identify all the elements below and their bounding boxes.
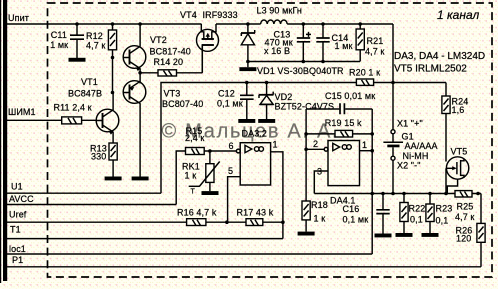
resistor R23 xyxy=(426,194,452,234)
svg-text:4,7 к: 4,7 к xyxy=(455,212,474,222)
svg-text:x 16 В: x 16 В xyxy=(264,46,290,56)
svg-text:DA3, DA4 - LM324D: DA3, DA4 - LM324D xyxy=(394,51,485,62)
svg-text:4,7 к: 4,7 к xyxy=(365,47,384,57)
zener diode VD2 xyxy=(259,83,334,120)
transistor VT1 xyxy=(68,77,119,143)
svg-text:R19 15 k: R19 15 k xyxy=(325,118,362,128)
pin 1 output of DA4.1 xyxy=(360,140,373,151)
wire Uref line xyxy=(7,221,283,223)
wire feedback vertical left xyxy=(305,109,307,201)
node R12-rail xyxy=(111,22,115,26)
resistor R11 xyxy=(54,103,92,124)
svg-text:R20 1 к: R20 1 к xyxy=(349,68,380,78)
svg-text:VT3: VT3 xyxy=(164,89,181,99)
node R14 tap xyxy=(138,71,142,75)
svg-text:ШИМ1: ШИМ1 xyxy=(8,107,36,117)
svg-text:2,4 к: 2,4 к xyxy=(185,133,204,143)
svg-text:R18: R18 xyxy=(311,200,328,210)
wire rail L3 to output corner xyxy=(287,24,393,130)
node C11-rail xyxy=(75,22,79,26)
svg-text:BZT52-C4V7S: BZT52-C4V7S xyxy=(275,102,335,112)
svg-text:R11 2,4 к: R11 2,4 к xyxy=(54,103,92,113)
pin 6 of DA3.2 xyxy=(229,141,241,153)
resistor R21 xyxy=(356,24,384,62)
wire Uпит rail xyxy=(7,23,202,25)
resistor R15 xyxy=(185,126,237,155)
resistor R14 xyxy=(140,46,202,76)
svg-text:120: 120 xyxy=(456,234,471,244)
wire P1 line xyxy=(7,266,481,268)
wire VT5 gate down xyxy=(445,168,447,193)
diode VD1 (Schottky) xyxy=(241,24,344,76)
wire AVCC riser to R15 xyxy=(176,151,185,205)
ground of R18 xyxy=(298,232,315,236)
svg-text:R21: R21 xyxy=(367,36,384,46)
ground of VD1 xyxy=(239,62,256,72)
svg-text:X1 "+": X1 "+" xyxy=(397,119,423,129)
svg-text:R22: R22 xyxy=(409,204,426,214)
svg-text:2: 2 xyxy=(313,139,318,149)
svg-text:T1: T1 xyxy=(10,225,21,235)
pin 5 of DA3.2 xyxy=(228,166,241,222)
wire shunt line xyxy=(314,193,455,195)
wire U1 riser and top line xyxy=(161,83,446,194)
svg-text:Uref: Uref xyxy=(9,210,27,220)
svg-text:C12: C12 xyxy=(218,89,235,99)
connector X2 xyxy=(391,156,421,170)
resistor R26 xyxy=(456,223,486,266)
resistor R25 xyxy=(455,191,474,222)
svg-text:T: T xyxy=(191,189,196,196)
svg-text:P1: P1 xyxy=(12,255,23,265)
node pin5-Uref xyxy=(225,220,229,224)
node DA4.1 out xyxy=(370,149,374,153)
svg-text:BC807-40: BC807-40 xyxy=(162,99,203,109)
svg-text:U1: U1 xyxy=(11,182,23,192)
capacitor C14 xyxy=(316,24,352,62)
ground of RK1 xyxy=(202,191,219,195)
resistor R16 xyxy=(177,208,217,226)
svg-text:1 канал: 1 канал xyxy=(437,8,479,22)
node VT5 source xyxy=(444,192,448,196)
svg-text:0,1: 0,1 xyxy=(410,215,423,225)
wire feedback vertical right / loc1 riser xyxy=(371,109,373,254)
svg-text:AVCC: AVCC xyxy=(9,194,34,204)
node C14-gnd xyxy=(321,60,325,64)
wire ШИМ1 xyxy=(7,119,97,121)
svg-text:G1: G1 xyxy=(402,132,414,142)
node pin2-R18 xyxy=(304,148,308,152)
svg-text:VT2: VT2 xyxy=(150,35,167,45)
svg-text:VT1: VT1 xyxy=(81,77,98,87)
svg-text:VD2: VD2 xyxy=(275,92,293,102)
svg-text:VT5: VT5 xyxy=(451,147,468,157)
wire R24 drop xyxy=(445,83,447,97)
ground of R23 xyxy=(422,233,439,237)
op-amp DA3.2 xyxy=(240,129,270,186)
svg-text:5: 5 xyxy=(228,166,233,176)
ground of VD2 xyxy=(258,119,275,123)
capacitor C11 xyxy=(50,24,84,58)
resistor R24 xyxy=(442,96,468,162)
svg-text:1 к: 1 к xyxy=(185,171,197,181)
svg-text:1 мк: 1 мк xyxy=(50,40,68,50)
node VT3 base xyxy=(111,91,115,95)
pin 2 of DA4.1 xyxy=(306,139,328,151)
node VT2 base xyxy=(111,56,115,60)
ground of R13 xyxy=(105,177,122,181)
svg-text:R23: R23 xyxy=(436,204,453,214)
svg-text:4,7 к: 4,7 к xyxy=(86,41,105,51)
svg-text:VD1 VS-30BQ040TR: VD1 VS-30BQ040TR xyxy=(257,66,344,76)
node C14-rail xyxy=(321,22,325,26)
node VT2 collector-rail xyxy=(138,22,142,26)
node C12 top xyxy=(245,81,249,85)
transistor VT4 (p-MOSFET) xyxy=(180,10,238,73)
node VD1-gndline xyxy=(246,60,250,64)
wire loc1 line xyxy=(7,253,372,255)
svg-text:R14 20: R14 20 xyxy=(154,57,184,67)
node RK1 tap xyxy=(208,149,212,153)
resistor R17 xyxy=(237,208,274,226)
node C13-rail xyxy=(302,22,306,26)
svg-text:1,6: 1,6 xyxy=(452,105,465,115)
connector X1 xyxy=(391,119,423,134)
node C16 top xyxy=(381,192,385,196)
svg-text:0,1 мк: 0,1 мк xyxy=(343,215,369,225)
wire rail VT4 to L3 xyxy=(216,23,261,25)
transistor VT5 (n-MOSFET) xyxy=(446,147,469,180)
wire U1 line xyxy=(7,192,161,194)
node battery top junction xyxy=(391,81,395,85)
node R23 top xyxy=(428,192,432,196)
wire battery to shunt line xyxy=(392,160,394,193)
svg-text:R12: R12 xyxy=(86,31,103,41)
svg-text:VT5 IRLML2502: VT5 IRLML2502 xyxy=(394,64,467,75)
thermistor RK1 xyxy=(182,151,220,196)
node R19 left xyxy=(304,132,308,136)
node VD1-rail xyxy=(246,22,250,26)
svg-text:IRF9333: IRF9333 xyxy=(203,10,238,20)
resistor R12 xyxy=(86,24,117,94)
node C13-gnd xyxy=(302,60,306,64)
svg-text:C15 0,01 мк: C15 0,01 мк xyxy=(325,91,375,101)
wire VT5 source jog xyxy=(447,179,457,193)
node battery-shunt xyxy=(391,192,395,196)
ground of R22 xyxy=(396,233,413,237)
pin 3 of DA4.1 xyxy=(314,167,328,194)
svg-text:6: 6 xyxy=(229,141,234,151)
transistor VT3 xyxy=(123,81,146,177)
ground of C12 xyxy=(238,119,255,123)
svg-text:C11: C11 xyxy=(51,30,67,40)
svg-text:330: 330 xyxy=(91,152,106,162)
op-amp DA4.1 xyxy=(328,141,360,206)
capacitor C16 xyxy=(343,194,390,234)
node DA3.2 out to Uref/T1 xyxy=(281,220,285,224)
pin 1 output of DA3.2 xyxy=(271,140,283,239)
svg-text:1 мк: 1 мк xyxy=(335,41,353,51)
wire AVCC line xyxy=(7,204,176,206)
svg-text:R17 43 k: R17 43 k xyxy=(237,208,274,218)
svg-text:loc1: loc1 xyxy=(9,244,26,254)
svg-text:1 к: 1 к xyxy=(314,214,326,224)
svg-text:R25: R25 xyxy=(457,202,474,212)
capacitor C13 electrolytic xyxy=(264,24,311,62)
svg-text:X2 "-": X2 "-" xyxy=(397,161,421,171)
node R22 top xyxy=(402,192,406,196)
svg-text:C16: C16 xyxy=(343,204,360,214)
transistor VT2 xyxy=(123,24,191,84)
capacitor C12 xyxy=(217,83,254,120)
svg-text:1: 1 xyxy=(362,140,367,150)
wire T1 line xyxy=(7,238,283,240)
resistor R13 xyxy=(90,143,117,177)
svg-text:R16 4,7 k: R16 4,7 k xyxy=(177,208,217,218)
wire R25 to R26 xyxy=(472,194,481,224)
svg-text:Uпит: Uпит xyxy=(8,13,29,23)
capacitor C15 xyxy=(306,91,375,114)
svg-text:DA3.2: DA3.2 xyxy=(242,129,268,139)
ground of VT3 xyxy=(132,177,149,181)
node R21-rail xyxy=(358,22,362,26)
wire ground line C13 C14 R21 xyxy=(248,61,360,63)
node R19 right xyxy=(370,132,374,136)
ground of C11 xyxy=(69,58,86,62)
svg-text:BC817-40: BC817-40 xyxy=(150,47,191,57)
svg-text:BC847B: BC847B xyxy=(68,89,102,99)
left page edge line xyxy=(0,0,1,283)
svg-text:0,1 мк: 0,1 мк xyxy=(217,99,243,109)
svg-text:0,1: 0,1 xyxy=(436,216,449,226)
node loc1-shunt crossing xyxy=(370,192,374,196)
resistor R18 xyxy=(302,200,328,232)
svg-text:AA/AAA: AA/AAA xyxy=(405,141,438,151)
svg-text:L3 90 мкГн: L3 90 мкГн xyxy=(257,6,303,16)
resistor R22 xyxy=(400,194,425,234)
resistor R20 xyxy=(349,68,380,86)
node VD2 top xyxy=(265,81,269,85)
svg-text:1: 1 xyxy=(273,140,278,150)
svg-text:3: 3 xyxy=(317,167,322,177)
resistor R19 xyxy=(306,118,372,137)
node R25 right xyxy=(476,192,480,196)
svg-text:Ni-MH: Ni-MH xyxy=(403,151,429,161)
left terminal bar xyxy=(3,0,7,281)
ground of C16 xyxy=(375,234,392,238)
inductor L3 xyxy=(257,6,303,25)
svg-text:VT4: VT4 xyxy=(180,10,197,20)
battery G1 xyxy=(383,132,437,162)
